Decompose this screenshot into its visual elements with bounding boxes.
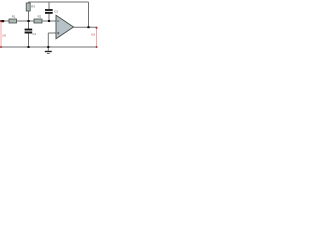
svg-text:ua: ua bbox=[91, 32, 95, 36]
svg-text:R2: R2 bbox=[38, 15, 42, 19]
svg-text:R1: R1 bbox=[12, 15, 16, 19]
svg-text:C2: C2 bbox=[54, 9, 58, 13]
svg-text:ue: ue bbox=[3, 33, 7, 37]
svg-text:R3: R3 bbox=[31, 4, 35, 8]
svg-text:C1: C1 bbox=[33, 32, 37, 36]
